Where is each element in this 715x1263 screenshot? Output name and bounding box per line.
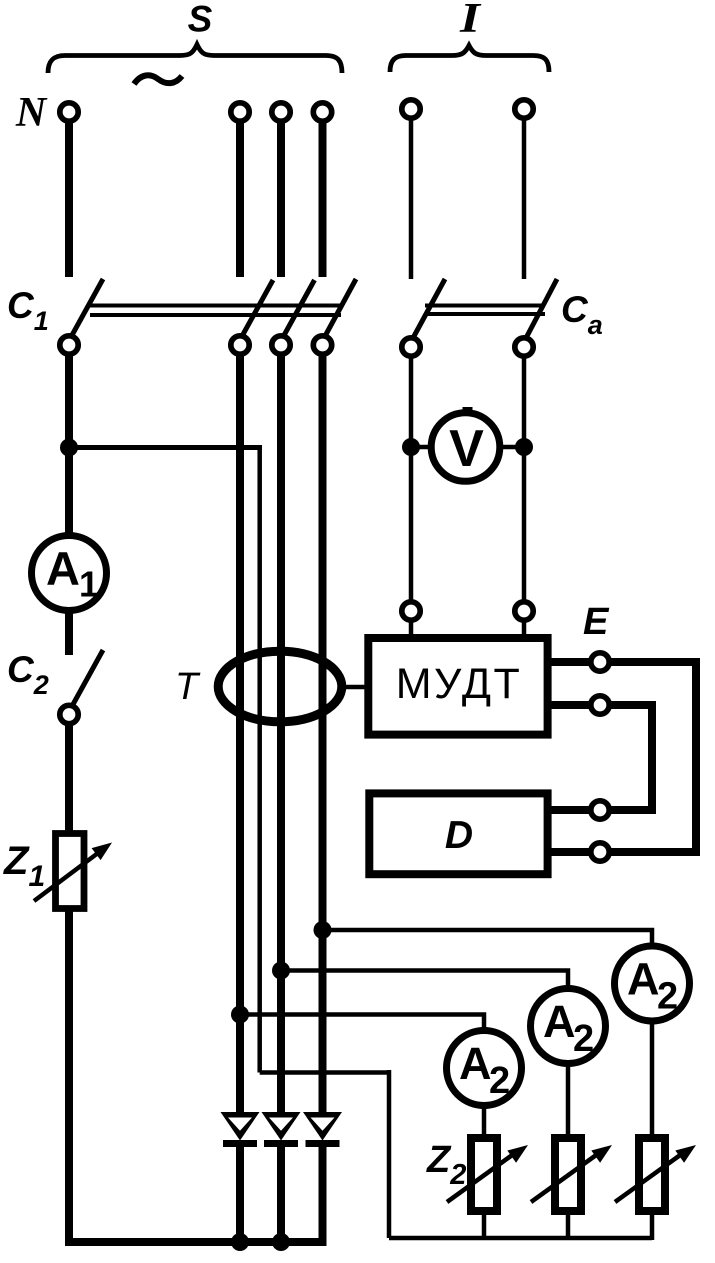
node phase2 tap xyxy=(272,962,290,980)
wire L1 down xyxy=(236,123,244,277)
svg-text:N: N xyxy=(15,90,48,136)
terminal D1 xyxy=(591,801,609,819)
wire tap3 to A2c xyxy=(323,930,653,946)
wire L3 down xyxy=(319,123,327,277)
wire N down xyxy=(65,123,73,277)
switch C1 blade pole 2 xyxy=(283,280,315,338)
impedance Z2c xyxy=(639,1138,665,1211)
svg-text:2: 2 xyxy=(657,976,678,1018)
wire stub in1 xyxy=(409,621,414,636)
wire I2 down to block xyxy=(522,356,527,601)
wire I1 down xyxy=(409,120,414,279)
ammeter A2b xyxy=(531,989,606,1064)
switch C1 blade pole 1 xyxy=(241,280,273,338)
svg-text:1: 1 xyxy=(79,564,99,605)
switch Ca linkage xyxy=(425,304,545,308)
wire D to D2 xyxy=(551,848,591,856)
switch Ca contact 2 xyxy=(515,338,533,356)
switch C1 linkage xyxy=(90,304,341,308)
wire D to D1 xyxy=(551,806,591,814)
wire tap1 to A2a xyxy=(240,1015,484,1031)
svg-text:T: T xyxy=(175,666,201,708)
brace S xyxy=(48,45,342,74)
node phase3 tap xyxy=(314,921,332,939)
wire phase 1 down xyxy=(236,356,244,1113)
current transformer T xyxy=(218,651,342,722)
switch C1 contact 2 xyxy=(272,336,290,354)
node phase1 tap xyxy=(231,1006,249,1024)
switch C1 contact N xyxy=(60,336,78,354)
wire C2 to Z1 xyxy=(65,725,73,832)
svg-text:I: I xyxy=(459,0,482,42)
wire bottom thin bus xyxy=(389,1236,652,1241)
svg-text:D: D xyxy=(445,814,473,857)
ammeter A2a xyxy=(447,1031,522,1106)
terminal L3 xyxy=(313,103,331,121)
ammeter A2c xyxy=(615,946,690,1021)
wire I2 down xyxy=(522,120,527,279)
wire E1 outer loop to D lower xyxy=(609,662,696,852)
svg-text:S: S xyxy=(188,0,213,40)
svg-text:МУДТ: МУДТ xyxy=(396,660,523,708)
terminal I1 xyxy=(402,100,420,118)
svg-text:A: A xyxy=(459,1038,492,1089)
wire A1 to C2 xyxy=(65,610,73,655)
wire A2b to Z2b xyxy=(566,1063,571,1138)
block D xyxy=(369,793,547,874)
wire phase 3 down xyxy=(319,356,327,1113)
ammeter A1 xyxy=(32,536,107,611)
switch C1 blade pole 3 xyxy=(324,279,356,338)
AC symbol ~ xyxy=(134,75,182,84)
terminal E1 xyxy=(591,653,609,671)
svg-text:A: A xyxy=(543,996,576,1047)
switch C1 contact 3 xyxy=(313,336,331,354)
terminal L1 xyxy=(231,103,249,121)
switch C1 contact 1 xyxy=(231,336,249,354)
wire phase N below C1 xyxy=(65,356,73,536)
diode phase 1 xyxy=(221,1112,260,1141)
svg-text:E: E xyxy=(583,601,610,643)
wire bottom bus xyxy=(65,1238,325,1246)
svg-text:V: V xyxy=(449,420,484,478)
wire MUDT to E2 xyxy=(551,701,591,709)
svg-text:2: 2 xyxy=(489,1060,510,1102)
node junction on N xyxy=(60,439,78,457)
wire Z2a down xyxy=(482,1213,487,1240)
wire A2a to Z2a xyxy=(482,1105,487,1138)
terminal D2 xyxy=(591,843,609,861)
switch C2 contact xyxy=(60,705,78,723)
block MUDT xyxy=(368,638,547,735)
wire Z2b down xyxy=(566,1213,571,1240)
wire junction to sense lead xyxy=(69,445,262,450)
node V right xyxy=(515,438,533,456)
terminal MUDT in1 xyxy=(402,602,420,620)
wire V left stub xyxy=(411,445,432,450)
wire sense lead across xyxy=(260,1070,389,1075)
wire phase 2 down xyxy=(277,356,285,1113)
wire MUDT to E1 xyxy=(551,658,591,666)
wire sense lead down xyxy=(257,448,262,1073)
svg-text:2: 2 xyxy=(573,1018,594,1060)
svg-text:A: A xyxy=(46,542,80,595)
node bus phase 2 xyxy=(272,1233,290,1251)
impedance Z2a xyxy=(471,1138,497,1211)
switch C2 blade xyxy=(71,650,103,708)
brace I xyxy=(390,46,549,73)
node V left xyxy=(402,438,420,456)
wire A2c to Z2c xyxy=(650,1021,655,1138)
wire T to MUDT xyxy=(344,685,366,690)
terminal MUDT in2 xyxy=(515,602,533,620)
switch Ca contact 1 xyxy=(402,338,420,356)
wire Z1 to bottom bus xyxy=(65,911,73,1246)
diode phase 3 xyxy=(303,1112,342,1141)
terminal I2 xyxy=(515,100,533,118)
voltmeter V xyxy=(431,413,500,482)
wire E2 inner loop to D upper xyxy=(609,705,652,810)
terminal N xyxy=(60,103,78,121)
terminal E2 xyxy=(591,696,609,714)
terminal L2 xyxy=(272,103,290,121)
wire Z2c down xyxy=(650,1213,655,1240)
switch C1 blade pole N xyxy=(71,279,103,337)
wire tap2 to A2b xyxy=(281,971,568,989)
impedance Z2b xyxy=(555,1138,581,1211)
switch Ca blade 1 xyxy=(413,279,445,338)
wire I1 down to block xyxy=(409,356,414,601)
wire V right stub xyxy=(499,445,524,450)
switch Ca blade 2 xyxy=(526,279,557,338)
impedance Z1 xyxy=(56,834,85,909)
svg-text:A: A xyxy=(627,954,660,1005)
wire L2 down xyxy=(277,123,285,277)
wire sense lead down right xyxy=(387,1070,392,1238)
wire stub in2 xyxy=(522,621,527,636)
diode phase 2 xyxy=(262,1112,301,1141)
node bus phase 1 xyxy=(231,1233,249,1251)
